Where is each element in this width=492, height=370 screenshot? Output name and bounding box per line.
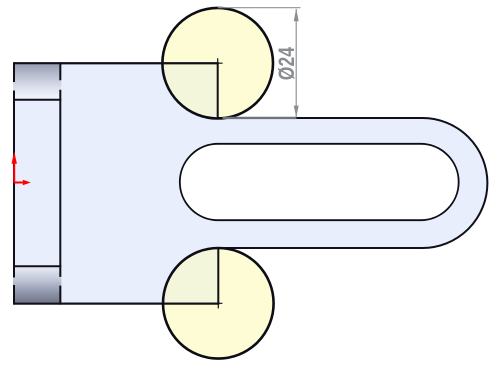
- column left edge segments: [13, 62, 15, 304]
- top circle C1 fill: [162, 8, 273, 119]
- gray extension overlay on arm top edge: [223, 117, 297, 119]
- bottom circle overlap quadrant: [163, 248, 218, 303]
- origin arrows: [12, 151, 31, 185]
- body (plate + arm with slot hole) fill: [14, 63, 487, 303]
- top circle overlap quadrant: [162, 63, 217, 118]
- crosshair bottom circle: [213, 298, 222, 308]
- svg-text:Ø24: Ø24: [274, 46, 299, 80]
- body outline: [14, 63, 487, 303]
- slot outline: [180, 144, 459, 220]
- crosshair top circle: [212, 58, 222, 68]
- dimension arrows: [294, 8, 299, 21]
- top circle outline: [162, 8, 273, 119]
- column top cap: [13, 63, 61, 100]
- dimension Ø24: [218, 8, 301, 118]
- bottom circle outline: [163, 248, 274, 359]
- cap separation lines: [13, 99, 61, 101]
- column right edge segments: [59, 62, 61, 304]
- column bottom cap: [13, 266, 61, 303]
- bottom circle C2 fill: [163, 248, 274, 359]
